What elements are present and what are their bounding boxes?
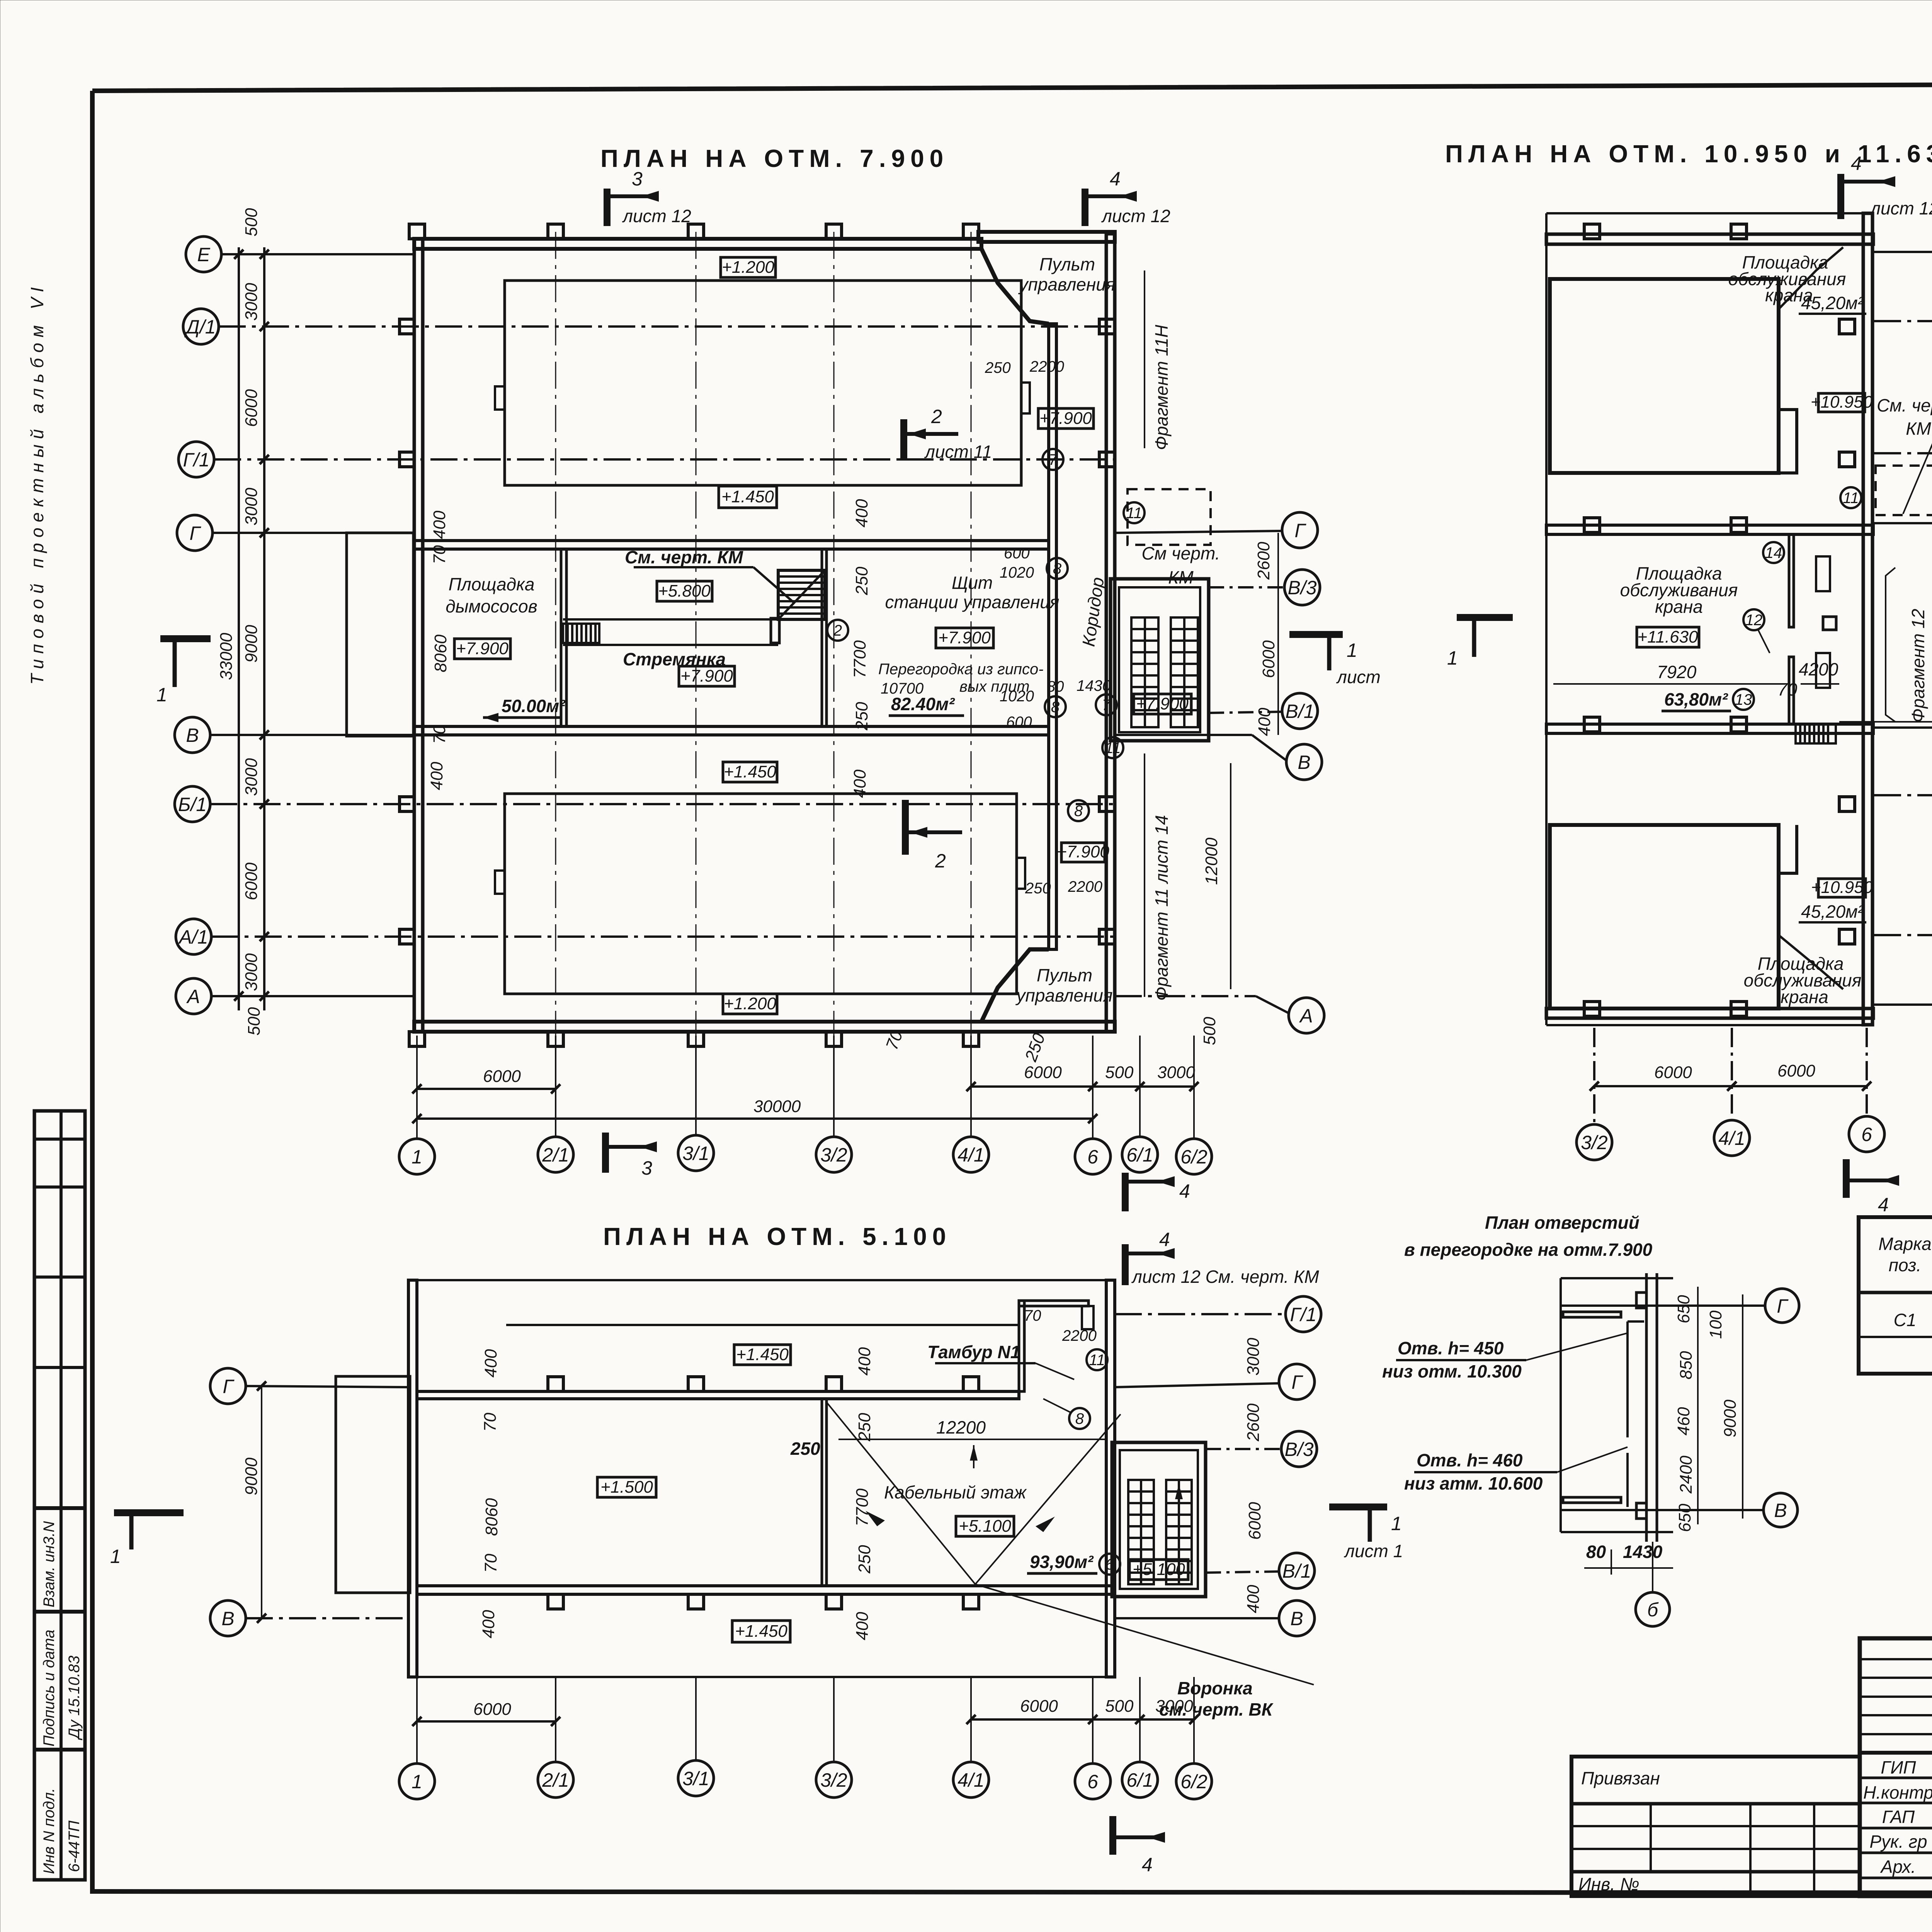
svg-text:63,80м²: 63,80м² xyxy=(1664,689,1728,709)
axis circle B1 xyxy=(175,786,1115,822)
middle wall G xyxy=(1546,525,1873,534)
middle wall V xyxy=(1546,724,1873,733)
right axis circles plan2 xyxy=(1874,234,1932,1022)
bottom boundary xyxy=(1546,1024,1874,1026)
svg-text:Перегородка из гипсо-: Перегородка из гипсо- xyxy=(878,661,1044,678)
svg-text:6: 6 xyxy=(1861,1124,1872,1145)
svg-text:+5.100: +5.100 xyxy=(1133,1560,1185,1579)
boxed level +7.900 right xyxy=(1134,694,1191,714)
boxed +1.450 bottom plan3 xyxy=(732,1621,790,1642)
small box 11.630 room xyxy=(1823,617,1836,630)
axis V line xyxy=(1561,1509,1764,1511)
svg-text:1: 1 xyxy=(1391,1513,1402,1534)
svg-text:Рук. гр: Рук. гр xyxy=(1869,1832,1927,1852)
svg-text:6000: 6000 xyxy=(1245,1502,1264,1540)
text 93,90 xyxy=(1027,1552,1097,1573)
svg-text:+5.800: +5.800 xyxy=(658,582,711,600)
svg-text:9000: 9000 xyxy=(242,1458,261,1495)
left bump-out platform xyxy=(347,533,413,736)
lower diagonal cut xyxy=(1779,935,1843,989)
svg-text:Пульт: Пульт xyxy=(1039,254,1095,274)
circled 11 plan3 xyxy=(1087,1349,1107,1370)
svg-text:лист 12: лист 12 xyxy=(622,206,691,226)
tambur door mark xyxy=(1082,1306,1094,1329)
bottom dim chain 2 xyxy=(412,1097,1097,1123)
svg-text:500: 500 xyxy=(245,1007,264,1036)
svg-text:Пульт: Пульт xyxy=(1037,965,1092,985)
boxed +10.950 lower xyxy=(1811,878,1873,897)
circled 13 plan2 xyxy=(1733,689,1754,710)
svg-text:3: 3 xyxy=(641,1157,652,1179)
svg-text:1: 1 xyxy=(1447,647,1458,669)
svg-text:ГИП: ГИП xyxy=(1881,1757,1916,1777)
svg-text:6: 6 xyxy=(1087,1146,1098,1168)
svg-text:12: 12 xyxy=(1745,612,1763,629)
svg-text:лист 1: лист 1 xyxy=(1344,1541,1403,1561)
svg-text:2: 2 xyxy=(935,850,946,872)
svg-text:11: 11 xyxy=(1126,505,1142,522)
svg-text:В: В xyxy=(1774,1500,1787,1521)
svg-text:250: 250 xyxy=(790,1439,820,1459)
svg-text:Арх.: Арх. xyxy=(1880,1857,1916,1877)
section mark 4 top plan2 xyxy=(1841,153,1932,219)
axis circle A1 xyxy=(176,919,1115,954)
lower-left room xyxy=(1550,825,1779,1009)
svg-text:+1.450: +1.450 xyxy=(724,762,776,781)
svg-text:4: 4 xyxy=(1142,1854,1153,1876)
rotated dims inside left plan3 xyxy=(479,1349,501,1638)
privyazan block outline xyxy=(1571,1757,1860,1896)
circled 12 plan2 xyxy=(1743,609,1770,653)
svg-text:В/3: В/3 xyxy=(1287,577,1316,599)
svg-text:Г/1: Г/1 xyxy=(1290,1304,1317,1325)
top boundary line xyxy=(1546,212,1874,214)
svg-text:Стремянка: Стремянка xyxy=(623,649,726,669)
svg-text:850: 850 xyxy=(1677,1351,1696,1379)
svg-text:650: 650 xyxy=(1674,1295,1693,1323)
svg-text:КМ: КМ xyxy=(1168,567,1194,587)
leader otv460 xyxy=(1404,1447,1628,1493)
svg-text:6: 6 xyxy=(1105,1556,1114,1573)
svg-text:2200: 2200 xyxy=(1029,358,1064,375)
svg-text:Отв. h= 460: Отв. h= 460 xyxy=(1417,1450,1523,1470)
svg-text:С1: С1 xyxy=(1894,1310,1917,1330)
fragment bracket lines xyxy=(1886,568,1895,722)
boxed +10.950 upper xyxy=(1811,393,1873,412)
section mark 1 left plan3 xyxy=(110,1513,184,1567)
left bump-out plan3 xyxy=(336,1376,410,1593)
right stair enclosure xyxy=(1111,579,1209,741)
svg-text:+10.950: +10.950 xyxy=(1811,393,1873,412)
circled 8 lower xyxy=(1068,800,1089,821)
svg-text:12000: 12000 xyxy=(1202,837,1221,885)
axis stubs to bottom circles xyxy=(417,1036,1194,1139)
svg-text:Г/1: Г/1 xyxy=(183,449,210,471)
svg-text:2200: 2200 xyxy=(1068,878,1102,895)
partition shchit xyxy=(822,549,827,726)
text 63.80 xyxy=(1662,689,1731,711)
svg-text:1020: 1020 xyxy=(1000,564,1034,581)
right wall corridor plan3 xyxy=(1106,1280,1115,1677)
svg-text:крана: крана xyxy=(1781,987,1828,1007)
svg-text:+1.450: +1.450 xyxy=(721,487,774,506)
svg-text:2200: 2200 xyxy=(1062,1327,1097,1344)
vertical column axes dashdot xyxy=(556,232,971,1036)
wall piece bottom xyxy=(1563,1497,1621,1503)
section mark 4 list12 xyxy=(1125,1229,1319,1287)
svg-text:3000: 3000 xyxy=(242,758,261,796)
boxed level +1.450 lower xyxy=(723,762,777,782)
dashed box right xyxy=(1128,489,1211,545)
upper-left room xyxy=(1550,279,1779,473)
svg-text:8: 8 xyxy=(1075,1410,1084,1427)
dim chain x4510 xyxy=(1742,1294,1743,1519)
svg-text:3000: 3000 xyxy=(242,283,261,321)
top line xyxy=(1561,1277,1673,1279)
svg-text:11: 11 xyxy=(1843,490,1859,507)
svg-text:3: 3 xyxy=(632,168,643,190)
svg-text:7920: 7920 xyxy=(1657,662,1697,682)
svg-text:4: 4 xyxy=(1851,153,1862,174)
svg-text:45,20м²: 45,20м² xyxy=(1801,901,1864,922)
outer wall right xyxy=(1106,234,1115,1032)
lower hall notch right xyxy=(1017,858,1025,889)
svg-text:100: 100 xyxy=(1706,1310,1725,1339)
svg-text:14: 14 xyxy=(1765,544,1782,561)
section mark 1 right xyxy=(1289,634,1381,687)
circled 14 plan2 xyxy=(1763,542,1784,563)
circled 8 top xyxy=(1047,558,1068,579)
svg-text:3/2: 3/2 xyxy=(820,1769,847,1791)
svg-text:500: 500 xyxy=(242,208,261,236)
upper room step xyxy=(1779,410,1797,473)
svg-text:70: 70 xyxy=(1777,679,1798,699)
text 82.40 xyxy=(889,694,964,716)
svg-text:Инв N подл.: Инв N подл. xyxy=(41,1788,58,1874)
dashed box plan2 xyxy=(1876,466,1932,515)
right rotated dims xyxy=(1202,542,1278,885)
svg-text:500: 500 xyxy=(1200,1017,1219,1045)
boxed level +1.200 bottom xyxy=(723,994,777,1014)
circled 8 mid xyxy=(1045,696,1066,717)
axis circle G detail xyxy=(1765,1289,1799,1323)
axis circle E xyxy=(186,236,414,272)
boxed level +1.200 top xyxy=(721,257,776,277)
left boundary line xyxy=(1545,213,1548,1025)
axis circle G1 xyxy=(179,442,1115,477)
axis circle G xyxy=(177,515,414,551)
svg-text:1: 1 xyxy=(412,1146,422,1168)
circled 11 plan2 xyxy=(1840,487,1861,508)
bottom circles row plan3 xyxy=(399,1760,1212,1799)
svg-text:250: 250 xyxy=(985,359,1011,376)
svg-text:Ду 15.10.83: Ду 15.10.83 xyxy=(66,1656,83,1740)
section mark 4 top xyxy=(1085,168,1170,226)
svg-text:См черт.: См черт. xyxy=(1141,543,1220,563)
svg-text:+1.200: +1.200 xyxy=(722,258,774,277)
section mark 1 left xyxy=(156,639,211,706)
small arrows kabelny xyxy=(866,1511,885,1526)
svg-text:4: 4 xyxy=(1159,1229,1170,1250)
svg-text:70: 70 xyxy=(481,1413,500,1432)
svg-text:+7.900: +7.900 xyxy=(938,628,991,647)
svg-text:+1.200: +1.200 xyxy=(724,994,776,1013)
svg-text:3000: 3000 xyxy=(1157,1063,1195,1082)
privyazan header bottom xyxy=(1571,1802,1860,1806)
right rotated dims plan3 xyxy=(1244,1338,1264,1613)
svg-text:45,20м²: 45,20м² xyxy=(1801,293,1864,313)
bottom wall xyxy=(1546,1009,1873,1018)
svg-text:4/1: 4/1 xyxy=(1718,1128,1745,1149)
door notch bottom xyxy=(1636,1503,1646,1519)
bottom circles row plan1 xyxy=(399,1135,1212,1174)
svg-text:400: 400 xyxy=(1244,1585,1263,1613)
svg-text:+1.450: +1.450 xyxy=(736,1345,789,1364)
svg-text:+10.950: +10.950 xyxy=(1811,878,1873,897)
svg-text:82.40м²: 82.40м² xyxy=(891,694,955,714)
svg-text:ГАП: ГАП xyxy=(1882,1807,1915,1827)
titleblock signature rows xyxy=(1860,1753,1932,1878)
PLAN2 (10.950/11.630) xyxy=(1445,140,1932,1216)
svg-text:Тамбур N1: Тамбур N1 xyxy=(927,1342,1020,1362)
stair hatch near V xyxy=(1796,724,1836,743)
boxed level +1.450 upper xyxy=(719,486,777,508)
svg-text:9000: 9000 xyxy=(242,625,261,663)
column ticks V wall plan3 xyxy=(548,1594,979,1609)
bottom circles plan2 xyxy=(1577,1028,1884,1160)
dim line 12000 xyxy=(1230,763,1231,989)
boxed +1.450 top plan3 xyxy=(734,1345,791,1365)
section mark 4 bottom plan2 xyxy=(1846,1159,1899,1216)
svg-text:3/2: 3/2 xyxy=(820,1144,847,1166)
svg-text:1020: 1020 xyxy=(1000,688,1034,705)
svg-text:400: 400 xyxy=(427,762,446,790)
svg-text:4/1: 4/1 xyxy=(957,1144,985,1166)
svg-text:2/1: 2/1 xyxy=(542,1769,569,1791)
svg-text:6000: 6000 xyxy=(1020,1697,1058,1716)
svg-text:4: 4 xyxy=(1878,1194,1889,1216)
svg-text:Г: Г xyxy=(1777,1295,1789,1317)
svg-text:70: 70 xyxy=(430,725,449,744)
svg-text:8060: 8060 xyxy=(431,634,450,672)
text 50.00 xyxy=(483,696,566,722)
axis circle V detail xyxy=(1764,1493,1798,1527)
top wall xyxy=(1546,234,1873,244)
circled 8 plan3 xyxy=(1043,1399,1090,1429)
svg-text:400: 400 xyxy=(430,510,449,539)
svg-text:8060: 8060 xyxy=(482,1498,501,1536)
svg-text:Коридор: Коридор xyxy=(1078,576,1108,648)
leader otv450 xyxy=(1382,1333,1628,1381)
svg-text:Привязан: Привязан xyxy=(1581,1768,1660,1788)
svg-text:Подпись и дата: Подпись и дата xyxy=(41,1629,58,1747)
svg-text:250: 250 xyxy=(852,566,871,595)
svg-text:6000: 6000 xyxy=(1777,1061,1815,1080)
svg-text:низ отм. 10.300: низ отм. 10.300 xyxy=(1382,1361,1522,1381)
text 45,20 lower xyxy=(1799,901,1866,922)
svg-text:80: 80 xyxy=(1047,678,1064,695)
svg-text:2600: 2600 xyxy=(1244,1403,1263,1442)
axis circle V xyxy=(175,717,414,753)
svg-text:+7.900: +7.900 xyxy=(1039,409,1092,428)
svg-text:Инв. №: Инв. № xyxy=(1578,1874,1639,1894)
svg-text:8: 8 xyxy=(1074,803,1083,820)
privyazan grid cols xyxy=(1650,1804,1652,1872)
svg-text:13: 13 xyxy=(1735,691,1752,708)
kzhi outline xyxy=(1859,1217,1932,1374)
left dim labels xyxy=(217,208,264,1036)
right dim line xyxy=(1277,533,1279,735)
svg-text:1430: 1430 xyxy=(1623,1542,1663,1562)
svg-text:Б/1: Б/1 xyxy=(178,794,207,815)
svg-text:+7.900: +7.900 xyxy=(456,639,509,658)
svg-text:А: А xyxy=(186,986,200,1007)
section mark 1 right plan3 xyxy=(1329,1507,1403,1561)
circled 11 mid xyxy=(1102,737,1123,758)
svg-text:4: 4 xyxy=(1110,168,1121,190)
svg-text:12200: 12200 xyxy=(936,1417,986,1437)
svg-text:В: В xyxy=(1298,752,1310,773)
svg-text:Типовой проектный альбом VI: Типовой проектный альбом VI xyxy=(27,282,47,685)
wall diagonal top pult xyxy=(981,249,1049,324)
svg-text:70: 70 xyxy=(481,1554,500,1573)
upper diagonal cut xyxy=(1779,247,1843,309)
right circles plan1 xyxy=(1115,512,1324,1033)
leader diagonals kabelny xyxy=(827,1403,975,1584)
svg-text:70: 70 xyxy=(1024,1307,1041,1324)
bottom dim chain plan3 xyxy=(412,1697,1199,1726)
boxed +5.100 right xyxy=(1129,1560,1188,1580)
svg-text:+5.100: +5.100 xyxy=(959,1517,1011,1536)
right axis circles plan3 xyxy=(1115,1296,1321,1636)
V1 wall xyxy=(417,1586,1113,1594)
svg-text:3/2: 3/2 xyxy=(1581,1132,1608,1153)
boxed +11.630 xyxy=(1637,627,1699,647)
rotated dim labels detail xyxy=(1674,1295,1740,1532)
svg-text:Г: Г xyxy=(189,522,201,544)
stamp column box xyxy=(34,1111,85,1880)
ladder strip line2 xyxy=(563,644,778,646)
bottom dim chain plan2 xyxy=(1590,1061,1871,1091)
dim line 7920 xyxy=(1553,683,1785,685)
svg-text:лист: лист xyxy=(1336,667,1381,687)
DETAIL (holes) xyxy=(1382,1213,1799,1626)
tambur walls xyxy=(1019,1301,1024,1391)
svg-text:Фрагмент 11Н: Фрагмент 11Н xyxy=(1151,325,1172,450)
svg-text:4200: 4200 xyxy=(1799,659,1838,679)
partition mid plan3 xyxy=(822,1399,827,1586)
svg-text:В: В xyxy=(186,724,199,746)
svg-text:6000: 6000 xyxy=(242,862,261,900)
hole jamb top xyxy=(1628,1320,1644,1323)
svg-text:8: 8 xyxy=(1053,560,1062,577)
boxed level +7.900 corridor top xyxy=(1038,408,1094,429)
column ticks G wall plan3 xyxy=(548,1377,979,1391)
boxed level +7.900 mid xyxy=(936,628,993,648)
svg-text:33000: 33000 xyxy=(217,633,236,680)
left dim 9000 plan3 xyxy=(242,1381,266,1623)
svg-text:В/1: В/1 xyxy=(1282,1560,1311,1582)
rotated dims inside left xyxy=(427,510,450,790)
column ticks bottom wall xyxy=(409,1032,979,1046)
axis circle D1 xyxy=(183,309,1115,344)
svg-text:+7.900: +7.900 xyxy=(1057,842,1109,861)
svg-text:400: 400 xyxy=(481,1349,500,1378)
dim chain x4394 xyxy=(1697,1287,1699,1524)
svg-text:3/1: 3/1 xyxy=(682,1143,709,1164)
svg-text:2600: 2600 xyxy=(1254,542,1273,580)
svg-text:А/1: А/1 xyxy=(178,926,208,948)
svg-text:+1.500: +1.500 xyxy=(600,1478,653,1497)
svg-text:лист 12: лист 12 xyxy=(1869,198,1932,218)
svg-text:400: 400 xyxy=(850,769,869,798)
titleblock small grid rows xyxy=(1860,1659,1932,1734)
svg-text:6000: 6000 xyxy=(1259,640,1278,678)
boxed level +5.800 xyxy=(657,581,712,601)
svg-text:2/1: 2/1 xyxy=(542,1144,569,1166)
svg-text:30000: 30000 xyxy=(753,1097,801,1116)
axis circle b detail xyxy=(1636,1542,1670,1626)
svg-text:Г: Г xyxy=(223,1376,235,1397)
svg-text:лист 12: лист 12 xyxy=(1101,206,1170,226)
kzhi row line xyxy=(1859,1336,1932,1338)
svg-text:4: 4 xyxy=(1179,1180,1190,1202)
PLAN1 (7.900) xyxy=(156,145,1381,1174)
svg-text:7700: 7700 xyxy=(850,640,869,678)
svg-text:93,90м²: 93,90м² xyxy=(1030,1552,1094,1572)
svg-text:400: 400 xyxy=(855,1347,874,1376)
left dim chain lines xyxy=(238,247,240,1010)
lower room step xyxy=(1779,825,1797,873)
svg-text:3000: 3000 xyxy=(1155,1697,1193,1716)
svg-text:6/1: 6/1 xyxy=(1126,1769,1153,1791)
outer wall bottom xyxy=(414,1022,1115,1032)
upper hall inner rect xyxy=(505,281,1021,485)
svg-text:Взам. ин3.N: Взам. ин3.N xyxy=(41,1521,58,1607)
svg-text:600: 600 xyxy=(1004,545,1030,562)
svg-text:4/1: 4/1 xyxy=(957,1769,985,1791)
svg-text:6: 6 xyxy=(1087,1771,1098,1793)
outer wall top right (pult) xyxy=(978,232,1115,242)
svg-text:Н.контр: Н.контр xyxy=(1863,1782,1932,1803)
svg-text:лист 12 См. черт. КМ: лист 12 См. черт. КМ xyxy=(1131,1267,1319,1287)
partition dymosos xyxy=(561,549,566,726)
svg-text:Фрагмент 12: Фрагмент 12 xyxy=(1908,609,1928,723)
svg-text:3000: 3000 xyxy=(242,953,261,991)
top boundary line xyxy=(408,1279,1114,1281)
svg-text:В: В xyxy=(1290,1608,1303,1629)
circled 6 plan3 xyxy=(1099,1554,1120,1575)
svg-text:низ атм. 10.600: низ атм. 10.600 xyxy=(1404,1473,1543,1493)
column ticks right wall xyxy=(1099,319,1115,944)
wall diagonal bottom pult xyxy=(981,949,1049,1022)
svg-text:А: А xyxy=(1299,1005,1313,1027)
section mark 2 lower xyxy=(905,800,962,872)
right wall xyxy=(1863,213,1872,1025)
svg-text:1: 1 xyxy=(156,684,167,706)
middle band wall upper xyxy=(414,541,1049,549)
privyazan grid rows xyxy=(1571,1825,1860,1827)
svg-text:Площадка: Площадка xyxy=(449,574,535,594)
svg-text:поз.: поз. xyxy=(1889,1255,1922,1275)
svg-text:В/1: В/1 xyxy=(1285,701,1314,722)
circled 11 upper xyxy=(1124,502,1145,523)
boxed level +7.900 stremyanka xyxy=(679,666,735,686)
rotated dims inside mid xyxy=(850,499,871,798)
axis stubs to bottom circles plan3 xyxy=(417,1677,1194,1764)
svg-text:управления: управления xyxy=(1015,985,1113,1005)
svg-text:250: 250 xyxy=(852,702,871,731)
